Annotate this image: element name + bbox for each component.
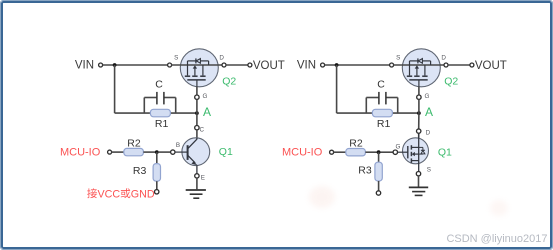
svg-text:Q1: Q1 [438, 147, 452, 159]
svg-text:E: E [201, 174, 205, 181]
svg-text:VIN: VIN [75, 60, 94, 72]
svg-text:R3: R3 [358, 165, 372, 177]
svg-text:A: A [425, 105, 433, 119]
svg-text:C: C [200, 127, 205, 134]
svg-text:D: D [441, 55, 446, 62]
svg-text:G: G [424, 93, 429, 100]
svg-text:S: S [174, 55, 178, 62]
svg-text:D: D [219, 55, 224, 62]
svg-text:A: A [203, 105, 211, 119]
svg-text:D: D [426, 129, 431, 136]
svg-text:R3: R3 [133, 165, 147, 177]
svg-text:VIN: VIN [297, 60, 316, 72]
svg-text:G: G [395, 144, 400, 151]
svg-text:Q2: Q2 [222, 75, 236, 87]
svg-text:S: S [427, 167, 431, 174]
svg-text:Q1: Q1 [219, 146, 233, 158]
svg-text:VOUT: VOUT [475, 60, 507, 72]
svg-text:C: C [155, 79, 163, 91]
svg-text:R1: R1 [155, 118, 169, 130]
svg-text:B: B [176, 142, 180, 149]
svg-text:GND: GND [131, 188, 155, 200]
svg-text:VCC: VCC [98, 188, 121, 200]
svg-text:VOUT: VOUT [253, 60, 285, 72]
svg-text:Q2: Q2 [444, 75, 458, 87]
svg-text:R2: R2 [127, 137, 141, 149]
svg-text:R1: R1 [377, 118, 391, 130]
svg-text:G: G [202, 93, 207, 100]
svg-text:MCU-IO: MCU-IO [282, 147, 323, 159]
svg-text:MCU-IO: MCU-IO [60, 146, 101, 158]
svg-text:R2: R2 [349, 138, 363, 150]
svg-text:C: C [377, 79, 385, 91]
svg-text:CSDN @liyinuo2017: CSDN @liyinuo2017 [446, 233, 547, 245]
svg-text:S: S [396, 55, 400, 62]
